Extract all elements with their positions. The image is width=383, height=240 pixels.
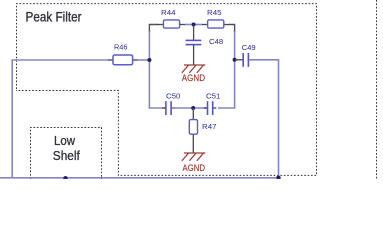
wire: bottom horizontal net: [0, 177, 279, 179]
wire: vertical branch through node A (up to R44 row, down to C50 row): [149, 31, 165, 108]
AGND symbol 1: [182, 65, 206, 73]
capacitor C51: [204, 107, 207, 109]
capacitor C50: [162, 107, 165, 109]
svg-text:Peak Filter: Peak Filter: [26, 9, 82, 25]
svg-text:C51: C51: [206, 92, 220, 101]
wire: left vertical input: [12, 60, 108, 178]
svg-text:R44: R44: [161, 8, 176, 17]
node E junction on bottom net: [63, 176, 67, 180]
wire: node D to C51: [193, 107, 207, 109]
capacitor C49: [235, 59, 243, 61]
Peak Filter block dashed border: [16, 4, 317, 176]
svg-text:R46: R46: [114, 42, 128, 51]
AGND symbol 2: [182, 153, 206, 161]
right neighbouring block dashed border: [376, 0, 378, 179]
node B junction: [233, 58, 237, 62]
svg-text:C49: C49: [242, 43, 256, 52]
resistor R45: [202, 24, 207, 26]
svg-text:AGND: AGND: [182, 73, 206, 83]
wire: R45 right over and down to node B: [218, 31, 235, 108]
wire: corner from R45 output: [229, 25, 235, 32]
resistor R47: [192, 108, 194, 119]
svg-text:R47: R47: [202, 122, 217, 131]
wire: R46 to node A: [138, 59, 150, 61]
wire: node C to R45: [194, 24, 203, 26]
wire: corner up to R44 input: [149, 25, 158, 32]
Low Shelf block dashed border: [31, 128, 102, 180]
resistor R44: [157, 24, 163, 26]
svg-text:AGND: AGND: [182, 163, 205, 173]
svg-text:C50: C50: [166, 92, 180, 101]
svg-text:Shelf: Shelf: [53, 149, 80, 163]
svg-text:R45: R45: [207, 8, 222, 17]
wire: C49 right over and down to bottom net: [249, 60, 279, 178]
svg-text:C48: C48: [209, 37, 223, 46]
node D junction: [191, 106, 195, 110]
resistor R46: [108, 59, 113, 61]
wire: R44 to node C: [185, 24, 194, 26]
svg-text:Low: Low: [54, 134, 76, 148]
node C junction: [192, 23, 196, 27]
node A junction: [147, 58, 151, 62]
node F junction on bottom net: [276, 176, 280, 180]
capacitor C48: [193, 25, 195, 41]
wire: C50 to node D: [172, 107, 194, 109]
